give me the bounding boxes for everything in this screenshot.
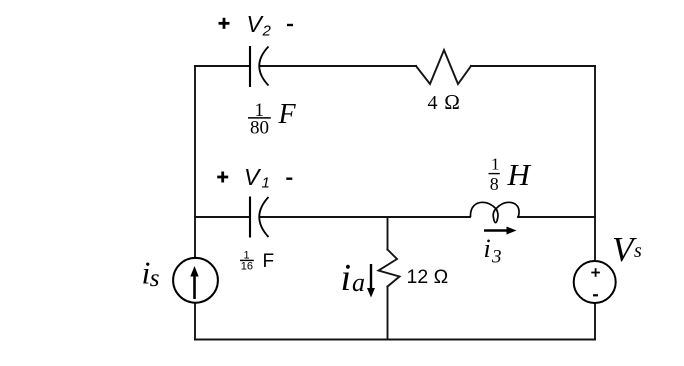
svg-text:4: 4	[428, 92, 438, 114]
svg-text:3: 3	[491, 247, 502, 268]
svg-text:F: F	[263, 251, 275, 272]
svg-text:8: 8	[490, 174, 499, 194]
svg-text:80: 80	[250, 118, 269, 139]
svg-text:1: 1	[262, 175, 270, 192]
svg-text:F: F	[278, 99, 297, 130]
svg-text:16: 16	[241, 261, 253, 273]
svg-text:2: 2	[262, 23, 272, 40]
svg-text:1: 1	[491, 155, 500, 174]
svg-text:i: i	[341, 257, 352, 299]
svg-text:i: i	[484, 234, 491, 263]
svg-text:a: a	[352, 268, 365, 297]
svg-text:V: V	[244, 164, 262, 190]
svg-text:s: s	[634, 240, 642, 262]
svg-text:12 Ω: 12 Ω	[407, 266, 449, 288]
svg-text:s: s	[150, 265, 160, 292]
svg-text:H: H	[507, 157, 532, 192]
svg-text:Ω: Ω	[444, 90, 460, 114]
